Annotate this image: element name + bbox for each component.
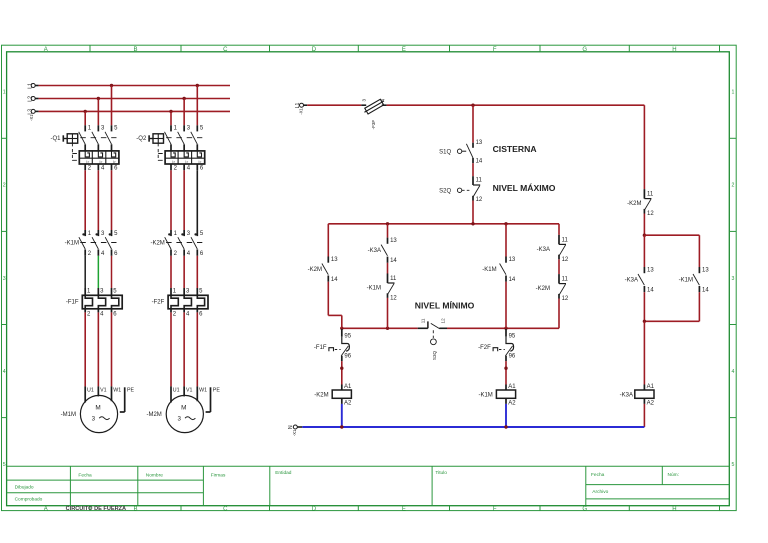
svg-text:14: 14	[390, 258, 397, 264]
svg-text:Titulo: Titulo	[435, 470, 447, 476]
svg-text:A2: A2	[508, 401, 516, 407]
svg-text:|>: |>	[113, 160, 116, 164]
svg-text:-F2F: -F2F	[478, 345, 491, 351]
svg-text:|>: |>	[185, 160, 188, 164]
svg-text:|>: |>	[100, 160, 103, 164]
svg-text:96: 96	[509, 354, 516, 360]
svg-text:-F1F: -F1F	[66, 300, 79, 306]
svg-text:Nombre: Nombre	[146, 472, 163, 478]
svg-text:14: 14	[702, 288, 709, 294]
svg-text:95: 95	[344, 334, 351, 340]
svg-text:5: 5	[731, 462, 734, 468]
svg-text:S1Q: S1Q	[439, 149, 451, 155]
svg-text:-K1M: -K1M	[482, 267, 496, 273]
svg-text:-K3A: -K3A	[537, 247, 550, 253]
svg-text:PE: PE	[213, 387, 221, 393]
svg-text:Firmas: Firmas	[211, 472, 226, 478]
svg-text:-K3A: -K3A	[620, 392, 633, 398]
svg-text:3: 3	[731, 276, 734, 282]
svg-text:U1: U1	[87, 387, 94, 393]
svg-text:D: D	[312, 506, 317, 512]
svg-text:3: 3	[362, 98, 367, 101]
svg-text:2: 2	[3, 183, 6, 189]
svg-text:W1: W1	[113, 387, 121, 393]
svg-text:14: 14	[476, 159, 483, 165]
svg-text:-F3F: -F3F	[371, 120, 376, 130]
svg-text:NIVEL MÍNIMO: NIVEL MÍNIMO	[415, 301, 475, 311]
svg-text:A1: A1	[344, 384, 352, 390]
svg-text:F: F	[493, 506, 497, 512]
svg-text:1: 1	[731, 90, 734, 96]
svg-text:S3Q: S3Q	[432, 350, 437, 360]
svg-text:14: 14	[331, 277, 338, 283]
svg-text:V1: V1	[100, 387, 107, 393]
svg-text:1: 1	[3, 90, 6, 96]
svg-text:-X1: -X1	[29, 114, 34, 121]
svg-text:-K2M: -K2M	[150, 241, 164, 247]
svg-text:A1: A1	[508, 384, 516, 390]
svg-text:2: 2	[731, 183, 734, 189]
svg-text:12: 12	[390, 296, 397, 302]
svg-text:4: 4	[731, 369, 734, 375]
svg-text:|>: |>	[86, 160, 89, 164]
svg-text:-M2M: -M2M	[146, 412, 161, 418]
svg-text:M: M	[181, 404, 186, 411]
svg-text:NIVEL MÁXIMO: NIVEL MÁXIMO	[493, 183, 556, 193]
svg-text:11: 11	[476, 177, 483, 183]
svg-text:E: E	[402, 47, 406, 53]
svg-text:|>: |>	[172, 160, 175, 164]
svg-text:A: A	[44, 506, 48, 512]
svg-text:A2: A2	[344, 401, 352, 407]
svg-text:3: 3	[177, 415, 181, 422]
svg-text:E: E	[402, 506, 406, 512]
svg-text:C: C	[223, 47, 228, 53]
svg-text:-K1M: -K1M	[367, 286, 381, 292]
svg-text:5: 5	[3, 462, 6, 468]
svg-text:CIRCUITO DE FUERZA: CIRCUITO DE FUERZA	[66, 506, 127, 512]
svg-text:11: 11	[562, 277, 569, 283]
svg-text:3: 3	[3, 276, 6, 282]
svg-text:3: 3	[92, 415, 96, 422]
svg-text:14: 14	[509, 277, 516, 283]
svg-text:13: 13	[702, 268, 709, 274]
svg-text:-X1: -X1	[292, 429, 297, 436]
svg-text:CISTERNA: CISTERNA	[493, 144, 537, 154]
svg-text:Entidad: Entidad	[275, 470, 292, 476]
svg-text:U1: U1	[173, 387, 180, 393]
svg-text:Núm:: Núm:	[668, 472, 679, 478]
svg-text:Archivo: Archivo	[592, 489, 608, 495]
svg-text:F: F	[493, 47, 497, 53]
svg-text:-F1F: -F1F	[314, 345, 327, 351]
svg-text:C: C	[223, 506, 228, 512]
svg-text:-K2M: -K2M	[536, 286, 550, 292]
svg-text:-Q1: -Q1	[50, 136, 61, 142]
svg-text:11: 11	[420, 318, 425, 323]
svg-text:A2: A2	[647, 401, 655, 407]
svg-text:H: H	[672, 506, 676, 512]
svg-text:Dibujado: Dibujado	[15, 484, 34, 490]
svg-text:12: 12	[440, 318, 445, 324]
svg-text:Fecha: Fecha	[78, 472, 92, 478]
svg-text:W1: W1	[199, 387, 207, 393]
svg-text:-K2M: -K2M	[627, 201, 641, 207]
svg-text:4: 4	[381, 98, 386, 101]
svg-text:PE: PE	[127, 387, 135, 393]
svg-text:96: 96	[344, 354, 351, 360]
svg-text:-Q2: -Q2	[136, 136, 147, 142]
svg-text:12: 12	[647, 211, 654, 217]
svg-text:11: 11	[562, 237, 569, 243]
svg-text:-F2F: -F2F	[152, 300, 165, 306]
svg-text:-K2M: -K2M	[308, 267, 322, 273]
svg-text:Fecha: Fecha	[591, 472, 605, 478]
svg-text:12: 12	[562, 257, 569, 263]
svg-text:13: 13	[476, 140, 483, 146]
svg-text:Comprobado: Comprobado	[15, 497, 43, 503]
svg-text:V1: V1	[186, 387, 193, 393]
svg-text:M: M	[95, 404, 100, 411]
svg-text:A1: A1	[647, 384, 655, 390]
svg-text:95: 95	[509, 334, 516, 340]
svg-text:11: 11	[647, 192, 654, 198]
svg-text:B: B	[133, 506, 137, 512]
svg-text:-K3A: -K3A	[625, 277, 638, 283]
svg-text:|>: |>	[199, 160, 202, 164]
svg-text:G: G	[582, 47, 587, 53]
svg-text:13: 13	[331, 257, 338, 263]
svg-text:S2Q: S2Q	[439, 188, 451, 194]
svg-text:13: 13	[647, 268, 654, 274]
svg-text:-K1M: -K1M	[478, 392, 492, 398]
svg-text:D: D	[312, 47, 317, 53]
svg-text:12: 12	[562, 296, 569, 302]
svg-text:A: A	[44, 47, 48, 53]
svg-text:11: 11	[390, 276, 397, 282]
svg-text:-K1M: -K1M	[65, 241, 79, 247]
svg-text:G: G	[582, 506, 587, 512]
svg-text:-K3A: -K3A	[368, 248, 381, 254]
svg-text:-X1: -X1	[299, 107, 304, 114]
svg-text:13: 13	[390, 238, 397, 244]
svg-text:-K1M: -K1M	[679, 277, 693, 283]
svg-text:12: 12	[476, 197, 483, 203]
svg-text:H: H	[672, 47, 676, 53]
svg-text:4: 4	[3, 369, 6, 375]
svg-text:13: 13	[509, 257, 516, 263]
svg-text:-K2M: -K2M	[314, 392, 328, 398]
svg-text:-M1M: -M1M	[61, 412, 76, 418]
svg-text:14: 14	[647, 288, 654, 294]
svg-text:B: B	[133, 47, 137, 53]
